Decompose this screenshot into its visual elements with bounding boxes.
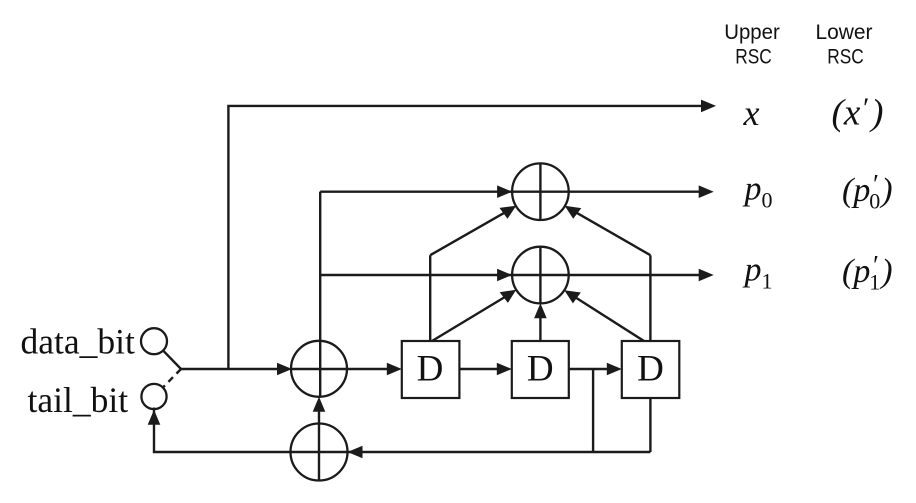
svg-text:data_bit: data_bit bbox=[21, 322, 135, 362]
svg-text:Upper: Upper bbox=[724, 21, 780, 44]
svg-text:x: x bbox=[743, 93, 760, 133]
svg-text:p0: p0 bbox=[743, 171, 773, 213]
svg-text:(p′1): (p′1) bbox=[842, 250, 893, 295]
svg-text:D: D bbox=[527, 349, 554, 390]
svg-text:RSC: RSC bbox=[735, 46, 772, 69]
svg-text:Lower: Lower bbox=[816, 21, 873, 44]
svg-text:p1: p1 bbox=[743, 252, 773, 294]
svg-text:D: D bbox=[417, 349, 444, 390]
svg-text:RSC: RSC bbox=[827, 46, 864, 69]
svg-text:(p′0): (p′0) bbox=[842, 169, 893, 214]
svg-text:D: D bbox=[637, 349, 664, 390]
svg-text:tail_bit: tail_bit bbox=[28, 380, 129, 420]
svg-text:(x′): (x′) bbox=[832, 93, 884, 134]
